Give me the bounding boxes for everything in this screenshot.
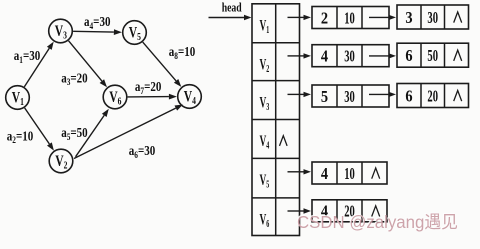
svg-text:a3=20: a3=20 — [61, 70, 88, 87]
svg-text:a5=50: a5=50 — [61, 125, 88, 142]
svg-text:a1=30: a1=30 — [14, 48, 41, 65]
svg-text:a6=30: a6=30 — [129, 143, 156, 160]
svg-text:6: 6 — [405, 86, 412, 105]
svg-text:2: 2 — [321, 8, 328, 27]
svg-text:a7=20: a7=20 — [135, 79, 162, 96]
svg-text:a4=30: a4=30 — [84, 14, 111, 31]
svg-text:30: 30 — [344, 87, 355, 106]
svg-text:5: 5 — [321, 87, 328, 106]
svg-text:CSDN @zalyang遇见: CSDN @zalyang遇见 — [297, 212, 458, 232]
svg-text:10: 10 — [344, 8, 355, 27]
svg-text:6: 6 — [405, 46, 412, 65]
svg-text:a2=10: a2=10 — [7, 128, 34, 145]
svg-text:a8=10: a8=10 — [169, 44, 196, 61]
svg-text:50: 50 — [427, 46, 438, 65]
svg-text:20: 20 — [427, 86, 438, 105]
svg-text:4: 4 — [321, 47, 329, 66]
svg-text:30: 30 — [427, 8, 438, 27]
svg-text:4: 4 — [321, 164, 329, 183]
svg-text:10: 10 — [344, 164, 355, 183]
svg-text:3: 3 — [405, 8, 412, 27]
svg-text:30: 30 — [344, 47, 355, 66]
svg-text:head: head — [222, 1, 242, 15]
